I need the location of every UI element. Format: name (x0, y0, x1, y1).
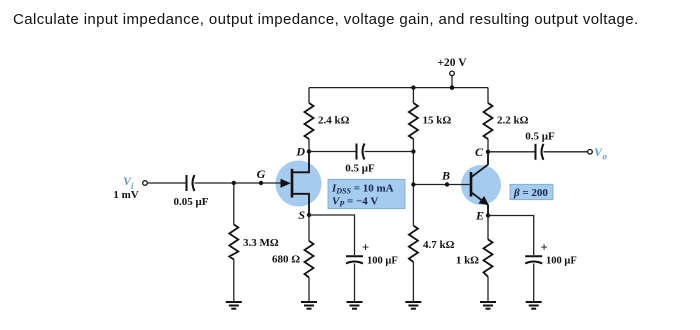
node E (475, 209, 490, 223)
svg-text:680 Ω: 680 Ω (272, 254, 300, 266)
wire: divider to base (413, 184, 471, 186)
svg-text:3.3 MΩ: 3.3 MΩ (243, 237, 279, 249)
wire: C to output cap (488, 151, 535, 153)
node C (475, 145, 490, 159)
svg-text:0.05 μF: 0.05 μF (174, 196, 209, 208)
wire: output cap to Vo (544, 151, 588, 153)
wire: 15k top lead (412, 88, 414, 103)
resistor RE 1 kOhm (456, 239, 493, 276)
wire: E to bypass cap CE (488, 216, 534, 256)
resistor R1 15 kOhm (409, 103, 451, 139)
svg-text:+: + (362, 241, 369, 255)
ground (4.7k) (405, 302, 421, 309)
capacitor C3 0.5 uF output (525, 131, 555, 160)
wire: 4.7k bottom lead (412, 262, 414, 302)
resistor R2 4.7 kOhm (409, 226, 455, 262)
svg-text:0.5 μF: 0.5 μF (345, 163, 375, 175)
beta box (510, 184, 553, 199)
capacitor CS 100 uF (346, 241, 398, 267)
wire: 2.4k top lead (308, 88, 310, 103)
wire: 2.2k bottom lead to node C (487, 139, 489, 152)
resistor RC 2.2 kOhm (484, 103, 529, 139)
ground (CS) (347, 302, 363, 309)
svg-text:15 kΩ: 15 kΩ (423, 115, 452, 127)
JFET parameter box (328, 179, 405, 208)
svg-text:o: o (603, 152, 608, 162)
svg-text:0.5 μF: 0.5 μF (525, 131, 555, 143)
svg-text:E: E (475, 209, 484, 223)
wire: Vi to input cap (147, 182, 186, 184)
wire: CE to ground (533, 264, 535, 303)
wire: top supply rail (309, 87, 488, 89)
ground (CE) (526, 302, 542, 309)
JFET Q1 body circle (276, 161, 322, 207)
BJT Q2 symbol (471, 152, 489, 216)
wire: 2.2k top lead (487, 88, 489, 103)
ground (1k) (480, 302, 496, 309)
node B (441, 169, 450, 187)
svg-text:β = 200: β = 200 (513, 187, 548, 199)
svg-text:100 μF: 100 μF (546, 256, 577, 267)
svg-text:VP = −4 V: VP = −4 V (332, 196, 378, 209)
output terminal Vo (588, 145, 608, 162)
svg-text:4.7 kΩ: 4.7 kΩ (423, 239, 455, 251)
wire: coupling cap to divider (365, 151, 414, 153)
svg-text:D: D (295, 145, 305, 159)
JFET Q1 symbol (281, 152, 310, 216)
resistor RD 2.4 kOhm (305, 103, 350, 139)
svg-text:B: B (441, 169, 450, 183)
input source Vi terminal (113, 174, 147, 201)
title text (13, 11, 639, 28)
ground (3.3M) (226, 302, 242, 309)
ground (680) (301, 302, 317, 309)
svg-text:1 kΩ: 1 kΩ (456, 255, 479, 267)
wire: 3.3M bottom lead (233, 260, 235, 303)
svg-text:+20 V: +20 V (437, 57, 467, 69)
node junction cap/divider (411, 149, 415, 153)
wire: CS to ground (354, 264, 356, 303)
svg-text:+: + (540, 241, 547, 255)
wire: 3.3M top lead (233, 183, 235, 225)
capacitor CE 100 uF (525, 241, 577, 267)
wire: S to bypass cap CS (309, 215, 355, 255)
node junction rail/15k (411, 85, 415, 89)
svg-text:2.2 kΩ: 2.2 kΩ (497, 115, 529, 127)
wire: 2.4k bottom lead to node D (308, 139, 310, 152)
capacitor C2 0.5 uF (345, 144, 375, 175)
resistor RS 680 Ohm (272, 241, 314, 278)
resistor RG 3.3 MOhm (229, 225, 279, 260)
wire: S to 680 top (308, 215, 310, 241)
node junction divider/base (411, 182, 415, 186)
supply +20 V terminal (437, 57, 467, 90)
svg-text:G: G (257, 167, 266, 181)
wire: 680 bottom lead (308, 278, 310, 303)
capacitor C1 0.05 uF (174, 175, 209, 208)
svg-text:C: C (475, 145, 484, 159)
wire: input cap to gate (195, 182, 282, 184)
wire: 1k bottom lead (487, 277, 489, 302)
wire: divider vertical 15k to 4.7k (412, 139, 414, 226)
transistor Q2 (BJT) body circle (461, 165, 501, 205)
svg-text:2.4 kΩ: 2.4 kΩ (318, 115, 350, 127)
svg-text:S: S (298, 208, 305, 222)
node D (295, 145, 311, 159)
node S (298, 208, 311, 222)
node junction at 3.3M tap (232, 181, 236, 185)
node G (257, 167, 266, 185)
wire: D to coupling cap (309, 151, 356, 153)
wire: E to 1k top (487, 216, 489, 240)
svg-text:1 mV: 1 mV (113, 189, 138, 201)
svg-text:100 μF: 100 μF (367, 256, 398, 267)
